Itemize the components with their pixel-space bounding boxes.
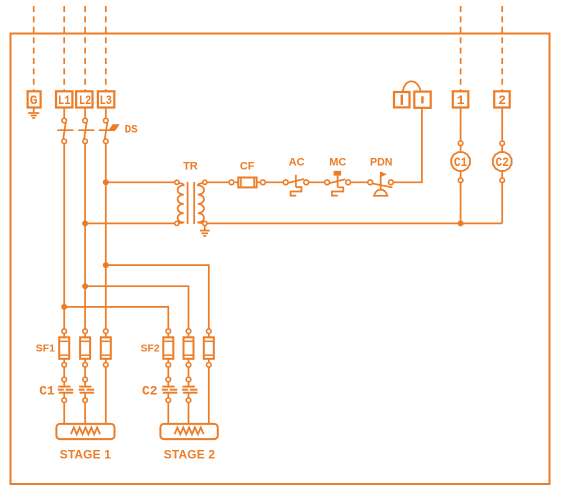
contactor MC (325, 171, 351, 196)
svg-text:AC: AC (289, 156, 305, 168)
svg-text:1: 1 (457, 93, 465, 108)
wire: AC to MC (309, 181, 325, 183)
disconnect switch DS pole L1 (63, 108, 65, 119)
wire: L1 column (63, 144, 65, 329)
svg-text:STAGE 2: STAGE 2 (164, 447, 216, 461)
node: junction L1 branch (61, 304, 67, 310)
node: junction L3 branch (103, 262, 109, 268)
fuse CF (229, 178, 265, 188)
node: junction L3 / TR primary top (103, 179, 109, 185)
terminal box 1 (453, 91, 469, 107)
svg-text:2: 2 (498, 93, 506, 108)
heater element STAGE 1 (56, 424, 114, 439)
svg-text:C1: C1 (39, 384, 55, 399)
wire: dashed phase feeder L1 (63, 6, 65, 91)
svg-text:SF2: SF2 (141, 343, 160, 354)
current transformer boxes I-I (394, 81, 431, 107)
node: junction C1 / common (458, 220, 464, 226)
svg-text:C2: C2 (496, 156, 509, 170)
meter C1 (451, 141, 470, 183)
contact AC (283, 175, 308, 196)
wire: L1 branch to stage 2 column 1 (64, 307, 168, 329)
node: junction L2 / TR primary bottom (82, 220, 88, 226)
capacitor C1a (58, 367, 73, 424)
svg-text:SF1: SF1 (36, 343, 55, 354)
wire: L2 branch to stage 2 column 2 (85, 286, 188, 329)
wire: L3 branch to stage 2 column 3 (106, 265, 209, 329)
fuse SF2b (184, 329, 194, 367)
wire: PDN up to CT (393, 108, 422, 183)
capacitor C2b (182, 367, 198, 424)
svg-text:CF: CF (240, 161, 255, 173)
svg-text:TR: TR (183, 161, 198, 173)
DS actuator flag (109, 124, 120, 130)
wire: dashed phase feeder L2 (84, 6, 86, 91)
wire: L3 column (105, 144, 107, 329)
capacitor C2a (162, 367, 178, 424)
terminal box G (28, 91, 41, 107)
wire: CF to AC (265, 181, 283, 183)
fuse SF1c (101, 329, 111, 367)
svg-text:DS: DS (125, 125, 139, 137)
wire: dashed feeder to terminal 1 (460, 6, 462, 91)
wire: L3 to TR primary top (106, 181, 175, 183)
wire: L2 to TR primary bottom (85, 222, 175, 224)
wire: TR secondary to CF (207, 181, 229, 183)
svg-text:C2: C2 (142, 384, 158, 399)
fuse SF2a (163, 329, 173, 367)
terminal box 2 (494, 91, 510, 107)
wire: L2 column (84, 144, 86, 329)
terminal box L1 (56, 91, 72, 107)
capacitor C1b (79, 367, 95, 424)
terminal box L3 (98, 91, 114, 107)
fuse SF1a (59, 329, 69, 367)
svg-text:STAGE 1: STAGE 1 (60, 447, 112, 461)
wire: dashed feeder to terminal 2 (501, 6, 503, 91)
fuse SF2c (204, 329, 214, 367)
transformer TR (175, 180, 207, 225)
wire: meter C1 down to common (460, 183, 462, 224)
pushbutton PDN (368, 172, 393, 196)
svg-text:L2: L2 (79, 93, 91, 108)
svg-text:L3: L3 (100, 93, 112, 108)
fuse SF1b (80, 329, 90, 367)
svg-text:G: G (30, 93, 38, 108)
wire: dashed phase feeder L3 (105, 6, 107, 91)
svg-text:L1: L1 (58, 93, 70, 108)
disconnect switch DS pole L3 (105, 108, 107, 119)
ground (below terminal G) (33, 107, 35, 113)
svg-text:PDN: PDN (370, 156, 392, 168)
meter C2 (493, 141, 512, 183)
svg-text:C1: C1 (454, 156, 467, 170)
ground (TR secondary) (204, 226, 206, 231)
node: junction L2 branch (82, 283, 88, 289)
svg-text:MC: MC (329, 156, 346, 168)
terminal box L2 (76, 91, 92, 107)
disconnect switch DS pole L2 (84, 108, 86, 119)
wire: dashed ground feeder G (33, 6, 35, 91)
wire: meter C2 down to common (501, 183, 503, 224)
wire: terminal 1 to meter C1 (460, 108, 462, 142)
heater element STAGE 2 (160, 424, 217, 439)
wire: TR secondary bottom common (207, 222, 502, 224)
wire: MC to PDN (351, 181, 368, 183)
wire: stage 2 column 3 (208, 367, 210, 424)
wire: stage 1 column 3 (105, 367, 107, 424)
wire: terminal 2 to meter C2 (501, 108, 503, 142)
